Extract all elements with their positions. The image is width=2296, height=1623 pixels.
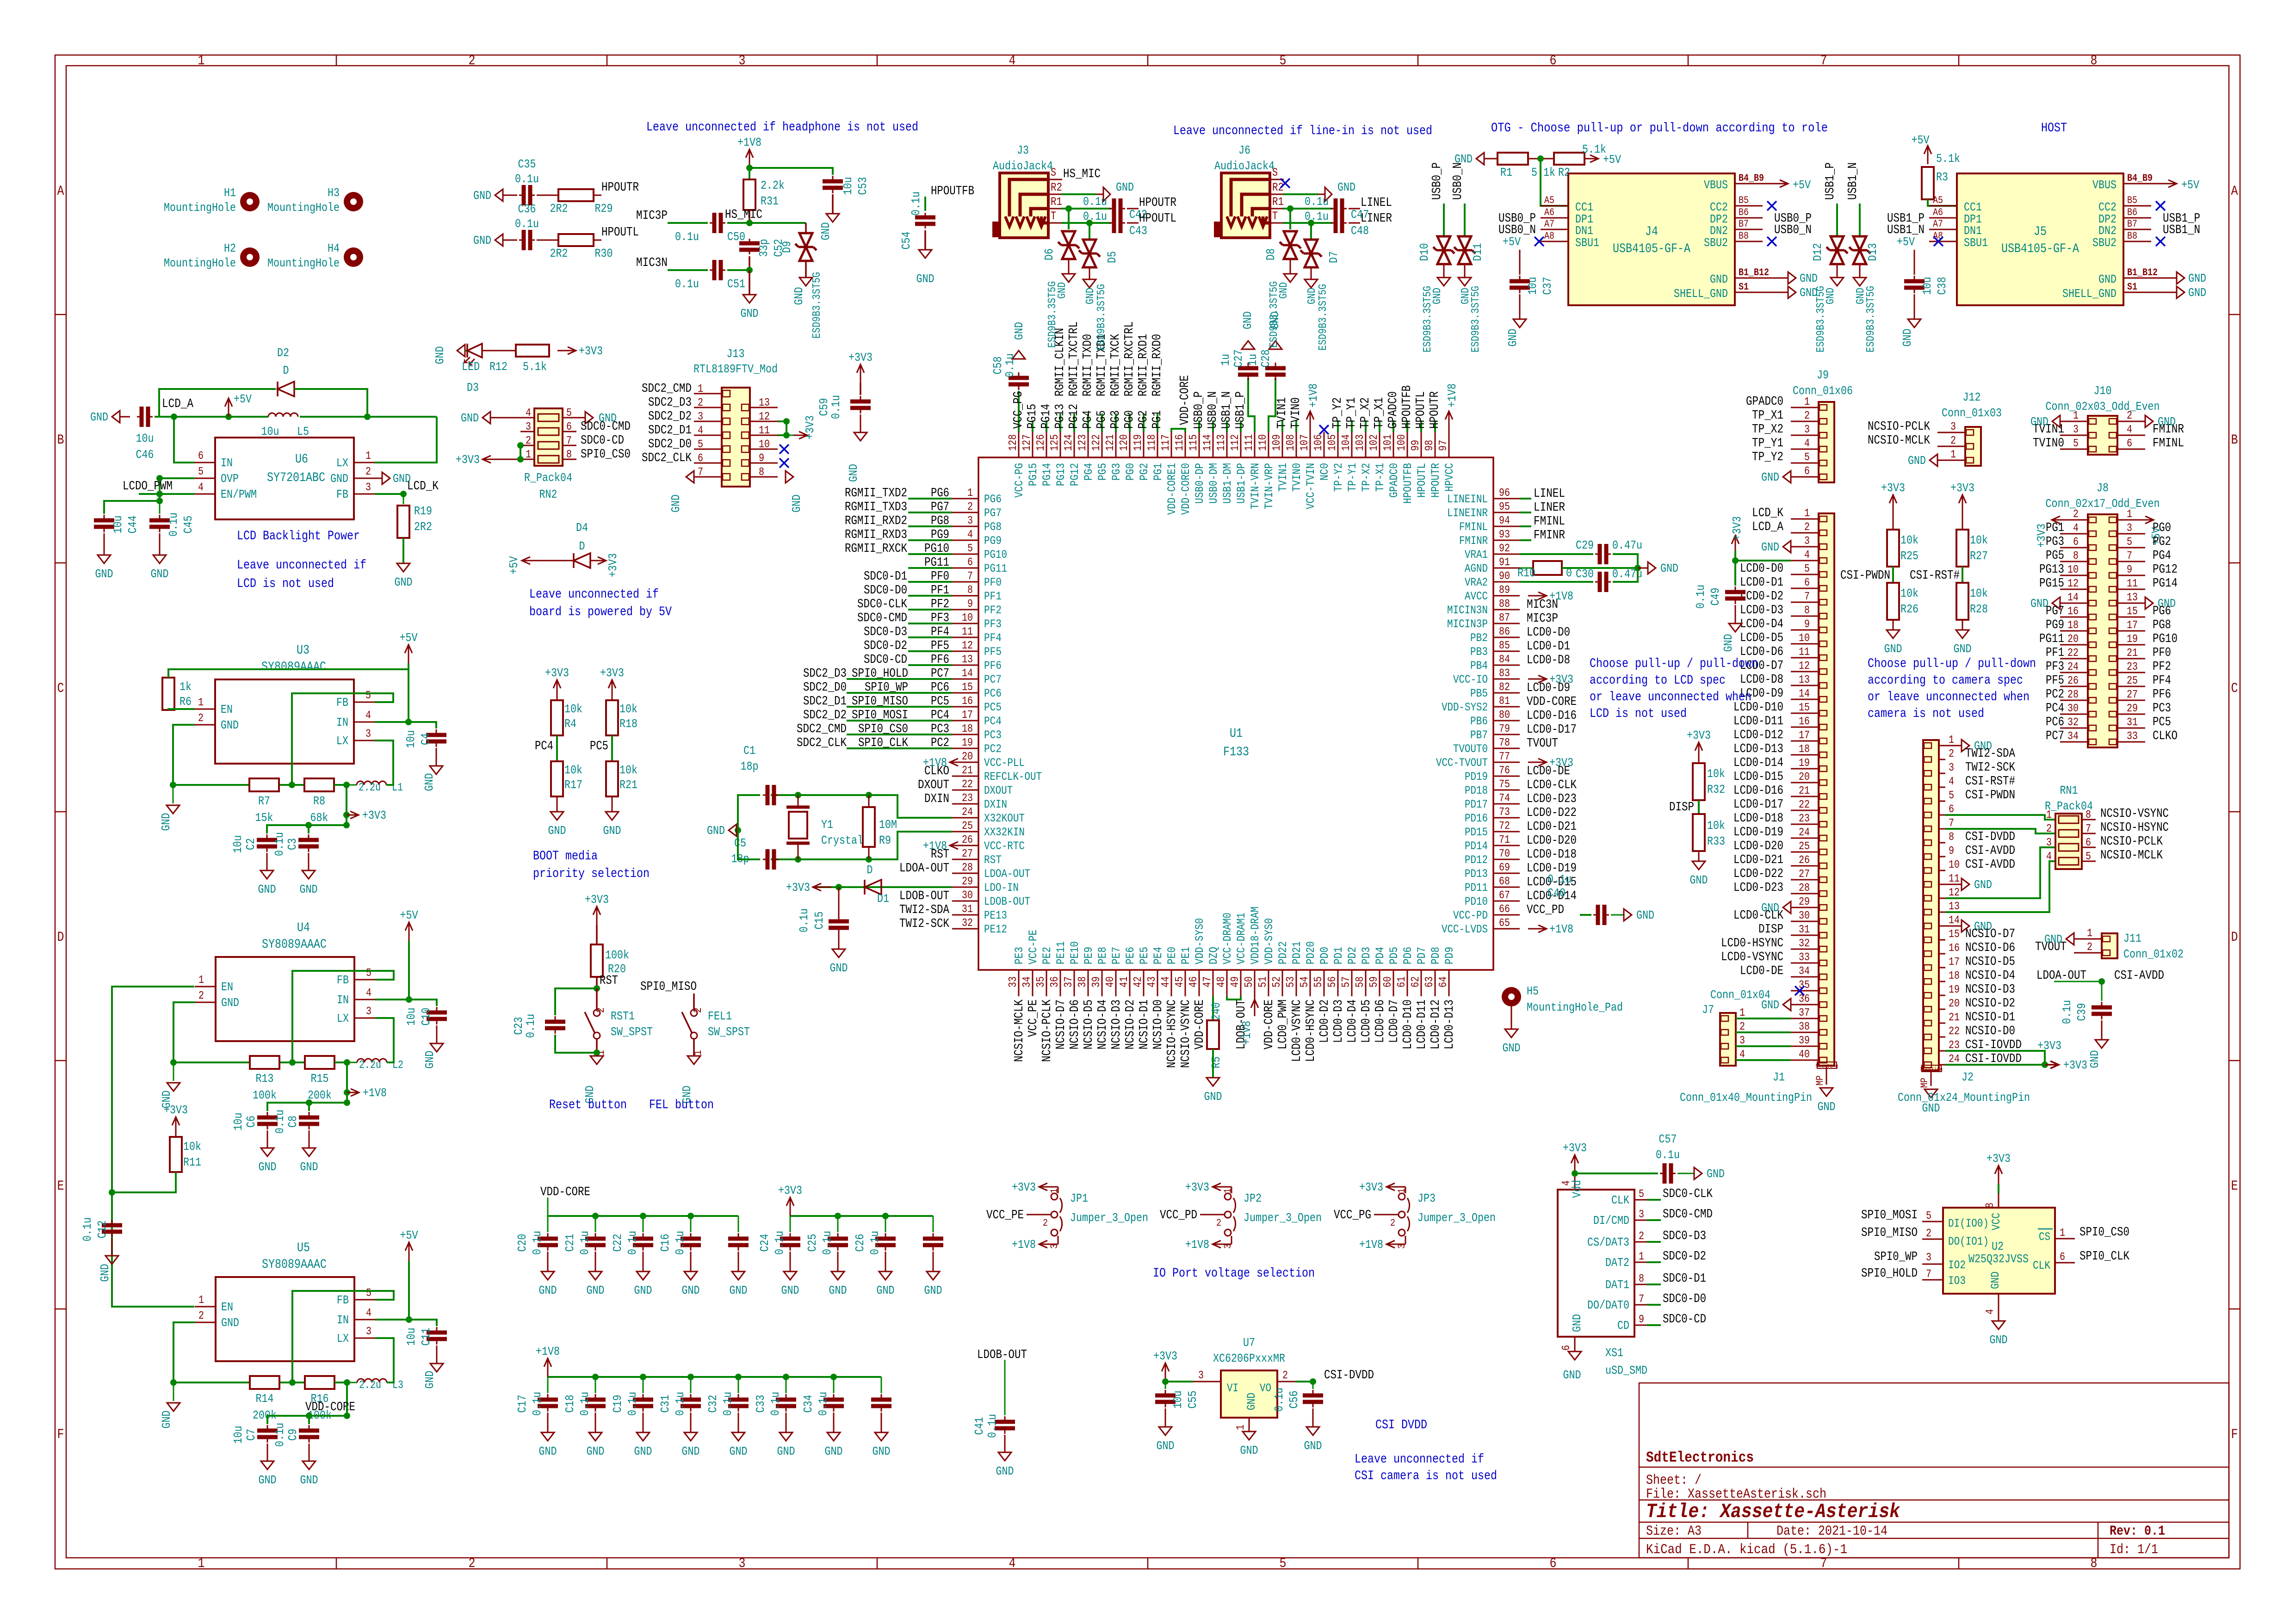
svg-text:VDD-CORE: VDD-CORE bbox=[1178, 375, 1192, 425]
svg-text:27: 27 bbox=[2127, 689, 2138, 701]
svg-text:4: 4 bbox=[366, 1307, 371, 1320]
svg-text:51: 51 bbox=[1257, 976, 1269, 987]
svg-text:21: 21 bbox=[962, 765, 973, 777]
svg-text:100k: 100k bbox=[253, 1088, 277, 1102]
svg-text:Conn_02x03_Odd_Even: Conn_02x03_Odd_Even bbox=[2046, 400, 2160, 413]
svg-text:NCSIO-D0: NCSIO-D0 bbox=[1151, 1000, 1165, 1049]
mounting hole H3 bbox=[344, 192, 363, 211]
svg-text:LCD0-D20: LCD0-D20 bbox=[1527, 834, 1577, 848]
inductor L5 10u bbox=[268, 413, 298, 417]
U1 pin 17 PC4 bbox=[952, 720, 978, 722]
svg-text:TP_X1: TP_X1 bbox=[1752, 409, 1783, 423]
wire bbox=[727, 269, 749, 271]
pull resistors R18 R21 bbox=[612, 680, 613, 698]
U1 pin 62 PD7 bbox=[1421, 970, 1422, 996]
U1 pin 3 PG8 bbox=[952, 526, 978, 527]
J13 pin 8 bbox=[750, 476, 778, 478]
svg-text:A: A bbox=[57, 184, 64, 199]
svg-text:27: 27 bbox=[962, 848, 973, 860]
svg-text:B: B bbox=[57, 432, 64, 448]
svg-text:120: 120 bbox=[1118, 434, 1131, 451]
svg-text:GND: GND bbox=[877, 1284, 895, 1297]
svg-text:1: 1 bbox=[1049, 1188, 1060, 1193]
svg-text:PD11: PD11 bbox=[1465, 881, 1488, 895]
svg-text:SDC2_D3: SDC2_D3 bbox=[803, 667, 847, 681]
svg-text:DISP: DISP bbox=[1669, 801, 1694, 815]
svg-text:PC4: PC4 bbox=[931, 709, 949, 722]
svg-text:PG13: PG13 bbox=[1054, 463, 1068, 486]
svg-text:PF1: PF1 bbox=[984, 590, 1002, 603]
capacitor bank VDD-CORE bbox=[548, 1215, 738, 1217]
connector J5 USB4105-GF-A bbox=[1957, 173, 2123, 305]
svg-text:R5: R5 bbox=[1209, 1056, 1223, 1068]
svg-text:0.1u: 0.1u bbox=[673, 1392, 687, 1416]
net labels pin 18 bbox=[847, 734, 952, 735]
U1 pin 116 VDD-CORE0 bbox=[1185, 432, 1186, 457]
svg-text:USB0_N: USB0_N bbox=[1206, 391, 1220, 429]
svg-text:23: 23 bbox=[1949, 1039, 1960, 1052]
svg-text:3: 3 bbox=[526, 421, 531, 433]
J13 pin 9 bbox=[750, 463, 778, 464]
U1 pin 67 PD10 bbox=[1493, 901, 1520, 902]
svg-text:10u: 10u bbox=[231, 1426, 245, 1444]
J8 row 17 bbox=[2060, 741, 2088, 743]
diode D2 loop bbox=[159, 389, 276, 417]
U1 pin 85 PB3 bbox=[1493, 651, 1520, 652]
svg-text:GND: GND bbox=[730, 1444, 748, 1458]
svg-text:2: 2 bbox=[1390, 1217, 1395, 1229]
svg-text:10k: 10k bbox=[564, 702, 582, 716]
svg-text:SDC0-CMD: SDC0-CMD bbox=[581, 420, 631, 434]
svg-text:12: 12 bbox=[1949, 887, 1960, 899]
svg-text:NCSIO-PCLK: NCSIO-PCLK bbox=[1868, 420, 1931, 434]
U1 pin 43 PE4 bbox=[1157, 970, 1158, 996]
svg-text:uSD_SMD: uSD_SMD bbox=[1605, 1364, 1647, 1377]
U1 pin 99 HPOUTL bbox=[1421, 432, 1422, 457]
svg-text:RGMII_TXCTRL: RGMII_TXCTRL bbox=[1067, 321, 1081, 396]
svg-text:GND: GND bbox=[95, 567, 113, 581]
svg-text:C43: C43 bbox=[1129, 224, 1147, 238]
svg-text:PB2: PB2 bbox=[1470, 631, 1488, 645]
U1 pin 31 PE13 bbox=[952, 914, 978, 916]
ground bbox=[1513, 319, 1526, 327]
svg-text:NCSIO-D0: NCSIO-D0 bbox=[1965, 1024, 2015, 1038]
net labels PG5 RGMII_TXD1 bbox=[1101, 413, 1103, 432]
svg-text:128: 128 bbox=[1007, 434, 1020, 451]
ground bbox=[173, 1382, 174, 1401]
U1 pin 107 VCC-TVIN bbox=[1310, 432, 1311, 457]
svg-text:C5: C5 bbox=[734, 836, 746, 850]
svg-text:SPI0_HOLD: SPI0_HOLD bbox=[852, 667, 908, 681]
svg-text:D8: D8 bbox=[1264, 248, 1278, 260]
U2 pin 8 VCC +3V3 bbox=[1998, 1193, 1999, 1208]
svg-text:C36: C36 bbox=[518, 202, 536, 216]
svg-text:32: 32 bbox=[962, 917, 973, 930]
inductor L1 2.2u bbox=[334, 784, 347, 786]
J8 row 4 bbox=[2060, 561, 2088, 562]
svg-text:18: 18 bbox=[1799, 743, 1810, 756]
J2 pin 16 bbox=[1939, 953, 1945, 955]
svg-text:GND: GND bbox=[1563, 1368, 1581, 1382]
svg-text:PC2: PC2 bbox=[931, 736, 949, 750]
U1 pin 51 VDD-SYS0 bbox=[1268, 970, 1269, 996]
svg-text:0.1u: 0.1u bbox=[273, 1110, 287, 1134]
svg-text:J13: J13 bbox=[727, 347, 745, 361]
svg-text:12: 12 bbox=[759, 411, 770, 423]
U1 pin 66 VCC-PD bbox=[1493, 914, 1520, 916]
svg-text:EN: EN bbox=[221, 703, 233, 716]
J13 pin 11 bbox=[750, 435, 778, 436]
ground bbox=[397, 563, 410, 572]
svg-text:+3V3: +3V3 bbox=[545, 666, 569, 680]
svg-text:PG3: PG3 bbox=[1109, 410, 1123, 429]
svg-text:HOST: HOST bbox=[2041, 121, 2067, 136]
svg-text:2: 2 bbox=[1043, 1217, 1048, 1229]
svg-text:PF2: PF2 bbox=[984, 604, 1002, 617]
svg-text:R1: R1 bbox=[1051, 195, 1062, 209]
power +1V8 pin 89 bbox=[1528, 595, 1547, 597]
svg-text:SBU1: SBU1 bbox=[1964, 236, 1988, 250]
svg-text:SDC0-D0: SDC0-D0 bbox=[864, 584, 907, 598]
svg-text:PF1: PF1 bbox=[2046, 646, 2064, 660]
svg-text:XX32KIN: XX32KIN bbox=[984, 826, 1025, 839]
svg-text:A7: A7 bbox=[1933, 218, 1943, 230]
svg-text:VRA2: VRA2 bbox=[1465, 576, 1488, 589]
J8 row 16 bbox=[2060, 728, 2088, 729]
svg-text:PG4: PG4 bbox=[1082, 463, 1095, 481]
U2 pin 2 SPI0_MISO bbox=[1922, 1239, 1943, 1240]
U1 pin 93 FMINR bbox=[1493, 540, 1520, 541]
svg-text:6: 6 bbox=[1949, 803, 1954, 816]
J2 pin 24 bbox=[1939, 1064, 1945, 1066]
svg-text:+5V: +5V bbox=[2181, 178, 2199, 192]
svg-text:LCD0-D17: LCD0-D17 bbox=[1733, 798, 1783, 812]
svg-text:Mounting: Mounting bbox=[1816, 1063, 1838, 1069]
svg-text:6: 6 bbox=[2086, 837, 2091, 849]
svg-text:25: 25 bbox=[2127, 675, 2138, 687]
svg-text:1u: 1u bbox=[1219, 354, 1232, 366]
svg-text:LCD0-D5: LCD0-D5 bbox=[1360, 1000, 1374, 1043]
net labels pin 2 bbox=[908, 512, 952, 513]
svg-text:GND: GND bbox=[741, 307, 759, 321]
U1 pin 59 PD4 bbox=[1379, 970, 1380, 996]
svg-text:PG3: PG3 bbox=[1110, 463, 1123, 481]
svg-text:B1_B12: B1_B12 bbox=[2127, 267, 2158, 278]
svg-text:16: 16 bbox=[2067, 605, 2079, 618]
svg-text:PG11: PG11 bbox=[984, 562, 1007, 575]
power +3V3 J2 pin24 bbox=[1945, 1064, 2045, 1066]
svg-text:PG14: PG14 bbox=[1040, 404, 1053, 429]
svg-text:1: 1 bbox=[2127, 508, 2132, 521]
svg-text:PE4: PE4 bbox=[1151, 947, 1165, 964]
svg-text:17: 17 bbox=[1949, 956, 1960, 969]
svg-text:PG13: PG13 bbox=[1053, 404, 1067, 429]
main rail LCD_A bbox=[112, 411, 120, 423]
svg-text:GND: GND bbox=[300, 882, 318, 896]
svg-text:31: 31 bbox=[2127, 716, 2138, 729]
U1 pin 14 PC7 bbox=[952, 679, 978, 680]
svg-text:GND: GND bbox=[2098, 272, 2117, 286]
svg-text:C12: C12 bbox=[95, 1221, 109, 1239]
svg-text:2: 2 bbox=[1804, 521, 1810, 534]
svg-text:33: 33 bbox=[2127, 730, 2138, 743]
svg-text:35: 35 bbox=[1035, 976, 1047, 987]
output node bbox=[346, 1062, 348, 1092]
svg-text:B6: B6 bbox=[1739, 207, 1749, 218]
svg-text:PF6: PF6 bbox=[931, 653, 949, 667]
svg-text:DZQ: DZQ bbox=[1207, 947, 1220, 964]
svg-text:PE6: PE6 bbox=[1124, 947, 1137, 964]
svg-text:16: 16 bbox=[1799, 716, 1810, 728]
svg-text:LCD0-D4: LCD0-D4 bbox=[1346, 1000, 1360, 1043]
svg-text:GND: GND bbox=[825, 1444, 843, 1458]
svg-text:HPOUTL: HPOUTL bbox=[1415, 463, 1429, 498]
svg-text:PG14: PG14 bbox=[2153, 577, 2178, 591]
power +1V8 pin 97 bbox=[1448, 411, 1450, 432]
svg-text:PF4: PF4 bbox=[2153, 674, 2171, 688]
svg-text:CLK: CLK bbox=[1611, 1193, 1629, 1207]
U1 pin 2 PG7 bbox=[952, 512, 978, 513]
svg-text:73: 73 bbox=[1499, 806, 1510, 819]
svg-text:SPI0_CS0: SPI0_CS0 bbox=[858, 722, 908, 736]
U1 pin 70 PD12 bbox=[1493, 859, 1520, 860]
net label LINER bbox=[1520, 512, 1531, 513]
mounting hole H2 bbox=[240, 247, 260, 267]
svg-text:NCSIO-HSYNC: NCSIO-HSYNC bbox=[2100, 821, 2169, 835]
U1 pin 57 PD2 bbox=[1351, 970, 1353, 996]
svg-text:+5V: +5V bbox=[507, 556, 521, 574]
svg-text:PF4: PF4 bbox=[984, 631, 1002, 645]
U1 pin 90 VRA2 bbox=[1493, 581, 1520, 583]
ground bbox=[1956, 630, 1969, 638]
ground bbox=[1820, 1088, 1833, 1096]
svg-text:+3V3: +3V3 bbox=[1153, 1349, 1177, 1363]
svg-text:ESD9B3.3ST5G: ESD9B3.3ST5G bbox=[1865, 286, 1877, 352]
svg-text:GND: GND bbox=[1084, 288, 1097, 304]
svg-text:GND: GND bbox=[548, 824, 566, 838]
svg-text:PF0: PF0 bbox=[931, 570, 949, 584]
net labels pin 7 bbox=[908, 581, 952, 583]
svg-text:C51: C51 bbox=[727, 277, 745, 291]
connector J2 Conn_01x24_MountingPin bbox=[1923, 740, 1939, 1070]
svg-text:SDC0-D1: SDC0-D1 bbox=[864, 570, 907, 584]
svg-text:SDC2_D0: SDC2_D0 bbox=[803, 681, 847, 695]
svg-text:C40: C40 bbox=[1547, 886, 1566, 900]
svg-text:74: 74 bbox=[1499, 792, 1510, 805]
ground J12 pin1 bbox=[1930, 454, 1937, 466]
svg-text:GND: GND bbox=[221, 718, 239, 732]
svg-text:8: 8 bbox=[566, 449, 572, 461]
svg-text:127: 127 bbox=[1021, 434, 1034, 451]
svg-text:PC5: PC5 bbox=[590, 740, 608, 753]
svg-text:R29: R29 bbox=[595, 202, 613, 216]
svg-text:SBU2: SBU2 bbox=[2092, 236, 2117, 250]
svg-text:D13: D13 bbox=[1866, 243, 1880, 261]
svg-text:U6: U6 bbox=[295, 452, 308, 467]
capacitor C11 10u input bbox=[409, 1320, 437, 1326]
svg-text:SDC2_D1: SDC2_D1 bbox=[803, 695, 847, 709]
svg-text:2R2: 2R2 bbox=[550, 247, 568, 260]
svg-text:106: 106 bbox=[1312, 434, 1325, 451]
svg-text:34: 34 bbox=[1021, 976, 1034, 987]
svg-text:9: 9 bbox=[759, 452, 764, 465]
svg-text:VBUS: VBUS bbox=[1704, 178, 1728, 192]
svg-text:GND: GND bbox=[151, 567, 169, 581]
J1 pin 21 bbox=[1791, 796, 1819, 797]
svg-text:14: 14 bbox=[1799, 688, 1810, 700]
U1 pin 108 TVIN0 bbox=[1296, 432, 1297, 457]
svg-text:37: 37 bbox=[1799, 1007, 1810, 1019]
svg-text:39: 39 bbox=[1090, 976, 1103, 987]
regulator U7 XC6206PxxxMR bbox=[1221, 1370, 1277, 1418]
svg-text:J6: J6 bbox=[1238, 143, 1250, 157]
XS1 Vdd pin 4 bbox=[1574, 1173, 1576, 1190]
J1 pin 39 bbox=[1791, 1046, 1819, 1047]
svg-text:T: T bbox=[1272, 210, 1278, 223]
svg-text:X32KOUT: X32KOUT bbox=[984, 812, 1025, 825]
svg-text:PB3: PB3 bbox=[1470, 645, 1488, 659]
svg-text:+1V8: +1V8 bbox=[1549, 922, 1573, 936]
capacitor C25 bbox=[837, 1216, 839, 1232]
svg-text:SDC0-CD: SDC0-CD bbox=[1663, 1313, 1706, 1327]
svg-text:LCD0-HSYNC: LCD0-HSYNC bbox=[1721, 937, 1783, 950]
svg-text:HPOUTFB: HPOUTFB bbox=[931, 185, 974, 198]
ground bbox=[743, 295, 756, 303]
svg-text:TVIN1: TVIN1 bbox=[1276, 463, 1290, 492]
svg-text:110: 110 bbox=[1257, 434, 1269, 451]
svg-text:PC7: PC7 bbox=[931, 667, 949, 681]
svg-text:72: 72 bbox=[1499, 820, 1510, 833]
svg-text:LCD0_PWM: LCD0_PWM bbox=[1276, 1000, 1290, 1049]
svg-text:6: 6 bbox=[698, 452, 703, 465]
svg-text:14: 14 bbox=[962, 667, 973, 680]
no-connect SBU2 bbox=[2156, 237, 2165, 246]
wire gnd rail bbox=[173, 1002, 195, 1062]
capacitor C28 1u bbox=[1269, 378, 1275, 432]
power +1V8 bbox=[749, 149, 750, 168]
svg-text:LX: LX bbox=[337, 1012, 349, 1025]
svg-text:SDC2_D3: SDC2_D3 bbox=[648, 396, 692, 410]
svg-text:OTG - Choose pull-up or pull-: OTG - Choose pull-up or pull-down accord… bbox=[1491, 121, 1828, 136]
svg-text:SDC0-D2: SDC0-D2 bbox=[864, 639, 907, 653]
svg-text:R21: R21 bbox=[619, 778, 637, 792]
svg-text:7: 7 bbox=[1639, 1293, 1644, 1306]
resistor R1 5.1k bbox=[1476, 153, 1484, 165]
svg-text:0.1u: 0.1u bbox=[1694, 585, 1708, 609]
net HS_MIC bbox=[746, 220, 753, 226]
U1 pin 22 DXOUT bbox=[952, 790, 978, 791]
wire R6 to +5V rail bbox=[168, 669, 408, 678]
svg-text:BOOT media: BOOT media bbox=[533, 849, 598, 864]
svg-text:PG7: PG7 bbox=[931, 500, 949, 514]
J1 pin 10 bbox=[1791, 643, 1819, 645]
svg-text:59: 59 bbox=[1368, 976, 1380, 987]
svg-text:VCC_PD: VCC_PD bbox=[1160, 1209, 1197, 1222]
svg-text:2: 2 bbox=[595, 1007, 607, 1013]
U1 pin 50 VDD18-DRAM bbox=[1254, 970, 1256, 996]
svg-text:SDC0-CD: SDC0-CD bbox=[864, 653, 907, 667]
svg-text:0.1u: 0.1u bbox=[2060, 1000, 2074, 1024]
svg-text:U4: U4 bbox=[297, 921, 310, 935]
svg-text:D3: D3 bbox=[467, 381, 479, 395]
svg-text:TVIN0: TVIN0 bbox=[1289, 397, 1303, 429]
svg-text:FMINL: FMINL bbox=[1534, 515, 1565, 529]
net labels PG4 RGMII_TXD0 bbox=[1087, 413, 1089, 432]
net label FMINR bbox=[1520, 539, 1531, 541]
svg-text:R6: R6 bbox=[179, 695, 192, 709]
svg-text:GND: GND bbox=[634, 1284, 652, 1297]
svg-text:0.1u: 0.1u bbox=[768, 1392, 782, 1416]
resistor R16 100k bbox=[289, 1379, 296, 1386]
svg-text:USB1_N: USB1_N bbox=[2163, 223, 2200, 237]
svg-text:GND: GND bbox=[1304, 1439, 1322, 1453]
svg-text:0.1u: 0.1u bbox=[625, 1392, 639, 1416]
svg-text:GND: GND bbox=[669, 494, 683, 512]
svg-text:15: 15 bbox=[1949, 928, 1960, 941]
U1 pin 110 TVIN-VRP bbox=[1268, 432, 1269, 457]
svg-text:52: 52 bbox=[1271, 976, 1283, 987]
net labels pin 12 bbox=[908, 650, 952, 652]
svg-text:RTL8189FTV_Mod: RTL8189FTV_Mod bbox=[693, 362, 778, 376]
J2 pin 7 bbox=[1939, 828, 1945, 830]
ground bbox=[173, 1062, 174, 1081]
capacitor C43 bbox=[1086, 220, 1093, 226]
net labels pin 5 bbox=[908, 553, 952, 555]
svg-text:USB1_P: USB1_P bbox=[1234, 391, 1248, 429]
svg-text:12: 12 bbox=[962, 640, 973, 652]
svg-text:24: 24 bbox=[962, 806, 973, 819]
svg-text:0.1u: 0.1u bbox=[1305, 195, 1329, 209]
ground bbox=[430, 1364, 443, 1372]
svg-text:99: 99 bbox=[1410, 440, 1422, 451]
svg-text:D2: D2 bbox=[277, 346, 289, 360]
svg-text:PE5: PE5 bbox=[1138, 947, 1151, 964]
svg-text:LCD0-D16: LCD0-D16 bbox=[1527, 709, 1577, 723]
net label TVIN1 bbox=[1281, 420, 1283, 432]
svg-text:camera is not used: camera is not used bbox=[1868, 707, 1984, 721]
svg-text:3: 3 bbox=[698, 411, 703, 423]
svg-text:42: 42 bbox=[1132, 976, 1145, 987]
svg-text:2: 2 bbox=[2127, 410, 2132, 422]
U1 pin 96 LINEINL bbox=[1493, 498, 1520, 500]
svg-text:GND: GND bbox=[2030, 415, 2048, 429]
svg-text:NCSIO-D5: NCSIO-D5 bbox=[1082, 1000, 1096, 1049]
svg-text:FMINR: FMINR bbox=[1534, 529, 1565, 543]
J1 pin 18 bbox=[1791, 754, 1819, 756]
svg-text:IO2: IO2 bbox=[1948, 1259, 1966, 1272]
svg-text:Conn_01x02: Conn_01x02 bbox=[2123, 947, 2184, 961]
ground bbox=[838, 934, 840, 949]
svg-text:88: 88 bbox=[1499, 598, 1510, 611]
J13 pin 1 SDC2_CMD bbox=[694, 393, 722, 395]
svg-text:PD20: PD20 bbox=[1304, 941, 1318, 964]
ground J10 left bbox=[2052, 415, 2060, 427]
wire LX bbox=[375, 417, 437, 463]
svg-text:R26: R26 bbox=[1900, 602, 1918, 616]
svg-text:TWI2-SCK: TWI2-SCK bbox=[1965, 761, 2016, 775]
svg-text:2R2: 2R2 bbox=[414, 520, 432, 534]
J1 pin 35 bbox=[1791, 990, 1819, 992]
svg-text:PG12: PG12 bbox=[1068, 463, 1082, 486]
svg-text:MIC3P: MIC3P bbox=[1527, 612, 1558, 626]
U1 pin 33 PE3 bbox=[1018, 970, 1020, 996]
svg-text:FB: FB bbox=[337, 973, 349, 987]
U1 pin 21 REFCLK-OUT bbox=[952, 776, 978, 777]
svg-text:D5: D5 bbox=[1105, 251, 1119, 263]
J2 pin 4 bbox=[1939, 787, 1945, 788]
svg-text:+3V3: +3V3 bbox=[585, 893, 609, 907]
svg-text:71: 71 bbox=[1499, 834, 1510, 846]
